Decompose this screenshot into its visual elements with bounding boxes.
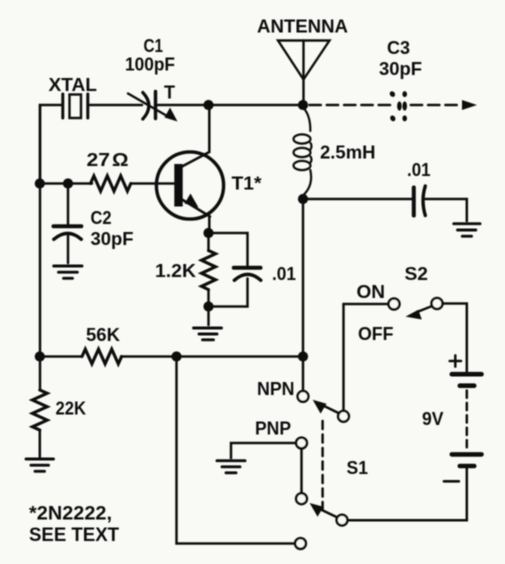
svg-text:C3: C3 — [387, 38, 410, 58]
svg-text:1.2K: 1.2K — [155, 261, 196, 281]
terminal: S1 upper pole — [338, 411, 349, 422]
terminal NPN contact — [298, 391, 309, 402]
wire: cap to ground corner — [426, 199, 467, 221]
resistor 27ohm — [91, 176, 131, 191]
wire: PNP to ground — [231, 443, 296, 458]
ground (top right) — [454, 224, 480, 237]
svg-text:56K: 56K — [86, 325, 120, 345]
wire: left rail — [39, 105, 42, 389]
resistor 1.2K — [202, 233, 216, 307]
svg-text:100pF: 100pF — [125, 55, 175, 75]
svg-text:ANTENNA: ANTENNA — [257, 17, 348, 37]
S1 gang link dashed — [321, 421, 324, 510]
terminal: S1 lower pole — [296, 493, 307, 504]
node: C2 junction — [63, 178, 73, 188]
node: collector junction — [203, 100, 213, 110]
wire: S1 rail down to NPN contact — [302, 357, 305, 391]
capacitor C3 (phantom trimmer, 30pF) — [389, 90, 407, 122]
resistor 56K — [82, 349, 122, 364]
battery 9V — [452, 374, 482, 466]
node: emitter junction — [203, 228, 213, 238]
svg-text:C1: C1 — [144, 36, 164, 56]
wire: collector node to antenna node — [209, 104, 304, 107]
ground (C2) — [54, 266, 82, 278]
terminal: S1 lower throw — [337, 515, 348, 526]
svg-text:SEE TEXT: SEE TEXT — [29, 525, 119, 546]
battery + sign — [450, 355, 461, 366]
wire: 56K row left — [40, 355, 82, 358]
resistor 22K — [32, 390, 47, 430]
svg-text:22K: 22K — [56, 399, 87, 419]
svg-text:S1: S1 — [347, 458, 369, 478]
ground (22K) — [26, 459, 54, 471]
capacitor C1 (variable, 100pF) — [128, 92, 178, 122]
svg-text:NPN: NPN — [257, 379, 295, 399]
svg-text:.01: .01 — [407, 160, 431, 180]
svg-text:9V: 9V — [422, 409, 444, 429]
node: bottom-left feed junction — [171, 351, 181, 361]
battery - sign — [444, 480, 459, 483]
wire: XTAL to C1 — [89, 104, 142, 107]
wire: emitter down — [208, 216, 211, 233]
S1 lower arm — [310, 503, 337, 517]
svg-text:Ω: Ω — [112, 150, 129, 170]
svg-text:T1*: T1* — [232, 174, 262, 194]
wire: 22K to ground — [39, 430, 42, 457]
wire: junction to ground — [207, 307, 210, 326]
antenna symbol — [278, 41, 330, 106]
svg-text:2.5mH: 2.5mH — [320, 143, 376, 163]
wire: junction to .01 bypass cap — [303, 198, 412, 201]
capacitor .01 (top right) — [414, 186, 426, 216]
svg-text:S2: S2 — [405, 264, 429, 284]
wire: 56K to S1 rail — [121, 355, 303, 358]
wire: resistor to base — [131, 182, 174, 185]
node: inductor bottom junction — [298, 194, 308, 204]
transistor T1 — [156, 152, 223, 219]
node: rail / base junction — [35, 178, 45, 188]
wire: dashed output line (right of C3) — [411, 104, 458, 107]
S2 arm — [406, 306, 433, 320]
svg-text:*2N2222,: *2N2222, — [29, 504, 112, 525]
terminal: S2 battery contact — [432, 298, 443, 309]
svg-text:T: T — [164, 83, 175, 103]
ground (PNP) — [217, 461, 245, 473]
inductor 2.5mH — [294, 108, 312, 196]
terminal: S2 ON contact — [389, 299, 400, 310]
svg-text:XTAL: XTAL — [49, 75, 98, 95]
wire: antenna rail down to S1 row — [302, 199, 305, 357]
capacitor .01 (emitter bypass) — [209, 233, 261, 307]
wire: dashed output line (left of C3) — [310, 104, 391, 107]
svg-text:30pF: 30pF — [91, 229, 134, 249]
wire: base wire — [40, 182, 92, 185]
wire: bottom-left feed down and right — [177, 357, 295, 544]
crystal XTAL — [63, 94, 88, 118]
wire: S2 ON down to S1 upper pole — [342, 304, 345, 411]
arrowhead of dashed output — [462, 100, 477, 110]
node: rail / 56K junction — [35, 351, 45, 361]
S1 upper arm — [313, 400, 339, 414]
wire: collector up — [208, 105, 211, 152]
terminal: PNP contact — [296, 438, 307, 449]
wire: ON contact left — [344, 303, 389, 306]
svg-text:30pF: 30pF — [379, 59, 422, 79]
node: emitter ground junction — [203, 301, 213, 311]
wire: battery - down and to S1 — [348, 469, 467, 521]
capacitor C2 30pF — [54, 184, 82, 264]
svg-text:PNP: PNP — [255, 419, 291, 439]
terminal: bottom throw contact — [295, 538, 306, 549]
wire: PNP contact down to S1 lower pole — [300, 448, 303, 493]
node: S1 top junction — [298, 351, 308, 361]
wire: C1 to collector node — [157, 104, 209, 107]
node: antenna junction — [298, 100, 308, 110]
svg-text:OFF: OFF — [358, 324, 394, 344]
ground (emitter) — [194, 328, 222, 340]
svg-text:ON: ON — [357, 282, 386, 302]
svg-text:.01: .01 — [272, 264, 296, 284]
wire: top main horizontal from left corner to XTAL — [40, 105, 61, 184]
svg-text:27: 27 — [87, 150, 111, 170]
wire: S2 to battery + — [443, 304, 467, 372]
svg-text:C2: C2 — [91, 208, 112, 228]
